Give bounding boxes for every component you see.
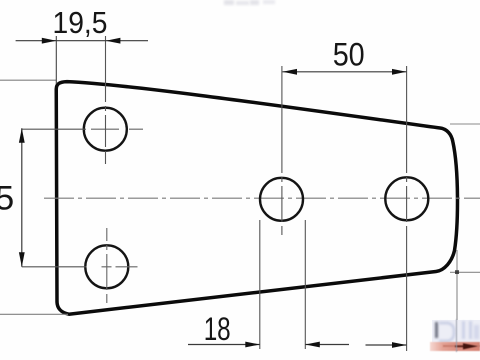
- left extension line at bottom-left corner level: [0, 313, 68, 315]
- H4 vertical center line / extensions: [406, 66, 408, 351]
- svg-text:55: 55: [0, 179, 14, 217]
- 50 arrow right (inside, pointing right): [392, 69, 407, 75]
- svg-text:50: 50: [333, 37, 365, 73]
- watermark right faint glyphs: [462, 321, 465, 339]
- 55 arrow top (inside, pointing up): [19, 128, 25, 143]
- 50 dimension line: [283, 71, 407, 73]
- svg-text:18: 18: [204, 311, 231, 347]
- dimension 50: [283, 37, 407, 75]
- 19,5 arrow right (outside, pointing left): [106, 38, 121, 44]
- 18 extension line left (hole tangent): [259, 220, 261, 349]
- watermark logo box: [432, 320, 480, 343]
- 19,5 dimension line: [16, 40, 148, 42]
- watermark letter bar: [435, 322, 438, 339]
- part outline: [56, 82, 457, 315]
- H3 vertical center line / 50-dim left extension: [281, 66, 283, 235]
- right vertical extension line over watermark: [456, 319, 457, 352]
- 50 arrow left (inside, pointing left): [283, 69, 298, 75]
- watermark red band: [430, 342, 480, 351]
- left extension line at top-left corner level: [0, 79, 57, 81]
- hole H1 top-left: [84, 108, 127, 151]
- right extension line at bottom-right corner level: [450, 271, 480, 273]
- dark red arrow over band: [440, 340, 480, 352]
- 18 dimension line right tail: [305, 344, 349, 346]
- hole H2 bottom-left: [85, 245, 128, 288]
- junction dot at right extension crossing: [455, 270, 459, 274]
- 55 dimension line: [21, 128, 23, 266]
- H2 horizontal center line: [22, 266, 87, 268]
- bottom-right partial dimension line with arrow to H4 center line: [366, 342, 407, 348]
- 55 arrow bottom (inside, pointing down): [19, 252, 25, 266]
- 19,5 arrow left (outside, pointing right): [42, 38, 57, 44]
- hole H3 middle: [260, 178, 303, 221]
- svg-text:19,5: 19,5: [53, 5, 108, 40]
- 19,5 extension line left (part edge extended): [55, 36, 57, 84]
- 18 arrow right (outside, pointing left): [305, 342, 320, 348]
- watermark red band core line: [443, 345, 480, 347]
- right extension line at top-right corner level: [450, 123, 480, 125]
- dimension 18: [188, 220, 349, 349]
- 18 extension line right (hole tangent): [304, 220, 306, 349]
- dimension 55 (clipped at left edge): [0, 128, 25, 266]
- clipped text remnants at top: [224, 0, 234, 5]
- main horizontal center line: [44, 197, 480, 199]
- H2 vertical center line: [106, 228, 108, 303]
- H1 horizontal center line: [22, 128, 86, 130]
- hole H4 right: [385, 177, 428, 220]
- watermark letter curves: [439, 322, 455, 342]
- 18 dimension line left tail: [188, 344, 260, 346]
- H1 vertical center line: [105, 36, 107, 164]
- 18 arrow left (outside, pointing right): [245, 342, 259, 348]
- right vertical extension line below part: [456, 250, 458, 351]
- dimension 19,5: [16, 5, 148, 84]
